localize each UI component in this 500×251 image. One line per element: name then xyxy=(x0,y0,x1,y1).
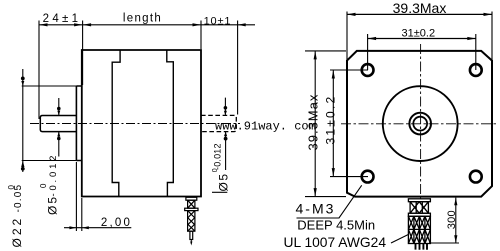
svg-text:0: 0 xyxy=(7,185,16,190)
arrow length right / 10 left xyxy=(193,23,202,26)
extension connector end xyxy=(429,242,459,244)
arrow 24 right / length left xyxy=(74,23,83,26)
dia22 lower arrow xyxy=(21,161,24,168)
boss edge extension lines xyxy=(22,86,77,161)
shaft centerline xyxy=(30,123,240,125)
svg-text:10±1: 10±1 xyxy=(204,16,232,28)
dia5 front dimension line xyxy=(58,98,60,157)
rear dia5 text underline xyxy=(212,191,227,193)
dia5 rear dots and arrows xyxy=(224,106,228,110)
mounting hole top left xyxy=(362,64,374,76)
arrows 39.3 top xyxy=(347,13,356,16)
mounting hole bottom right xyxy=(470,171,482,183)
pilot boss face xyxy=(75,86,77,161)
svg-text:39.3Max: 39.3Max xyxy=(393,0,447,16)
extension hole center lines left xyxy=(330,70,368,177)
connector pins xyxy=(416,244,428,250)
svg-text:300: 300 xyxy=(446,210,458,229)
stator step right xyxy=(167,50,174,197)
dia5 rear dimension line xyxy=(224,98,226,170)
mounting hole bottom left xyxy=(362,171,374,183)
dimension line 300 xyxy=(455,198,457,243)
arrows 31 vertical xyxy=(332,70,335,79)
svg-text:Ø5: Ø5 xyxy=(216,172,230,191)
extension line mounting face xyxy=(82,21,84,86)
flange square outline xyxy=(347,51,492,197)
svg-text:UL 1007 AWG24: UL 1007 AWG24 xyxy=(284,235,387,250)
boss height arrows outside xyxy=(69,226,76,229)
vertical centerline xyxy=(420,44,422,200)
leader 4-M3 xyxy=(297,185,362,218)
extension lines 31 top xyxy=(368,34,476,70)
front shaft xyxy=(40,116,76,132)
extension bottom edge left xyxy=(305,196,346,198)
pilot boss circle xyxy=(383,86,458,161)
dimension line 31 top xyxy=(368,38,476,40)
shaft circle xyxy=(413,117,427,131)
svg-text:Ø22: Ø22 xyxy=(10,216,24,248)
extension lines 39.3 top xyxy=(347,12,492,61)
extension line rear face xyxy=(200,21,202,50)
boss height dimension line xyxy=(64,227,131,229)
arrows 300 xyxy=(454,198,457,206)
svg-text:length: length xyxy=(123,12,162,24)
dia22 dot markers xyxy=(21,77,25,81)
boss top edge xyxy=(76,86,81,161)
rear shaft hidden xyxy=(201,115,236,131)
dia22 dimension line xyxy=(22,69,24,172)
arrowheads left view xyxy=(21,23,246,229)
mounting hole top right xyxy=(470,64,482,76)
svg-text:31±0.2: 31±0.2 xyxy=(324,95,338,145)
dia5 front dots and arrows xyxy=(57,107,61,111)
stator step left xyxy=(112,50,120,197)
arrow 10 right outside xyxy=(238,23,246,26)
svg-text:Ø5: Ø5 xyxy=(46,195,60,215)
svg-text:31±0.2: 31±0.2 xyxy=(402,27,436,39)
svg-text:4-M3: 4-M3 xyxy=(296,201,336,217)
dimension line 31 vertical xyxy=(332,70,334,177)
dimension line 39.3 vertical xyxy=(314,51,316,197)
shaft hub circle xyxy=(409,113,431,135)
arrows 31 top xyxy=(368,37,377,40)
lead wire connector front view xyxy=(408,199,430,250)
svg-text:0: 0 xyxy=(39,183,48,188)
svg-text:24±1: 24±1 xyxy=(43,13,82,25)
leader UL wire xyxy=(391,235,408,244)
extension top edge left xyxy=(305,50,346,52)
arrow 24 left xyxy=(39,23,48,26)
svg-text:0: 0 xyxy=(212,168,219,172)
dia22 upper arrow xyxy=(21,81,24,86)
svg-text:-0.012: -0.012 xyxy=(213,143,223,170)
svg-text:DEEP 4.5Min: DEEP 4.5Min xyxy=(297,217,375,232)
extension line shaft end xyxy=(38,21,40,120)
lead wire connector side view xyxy=(185,197,198,243)
extension line rear shaft end xyxy=(237,21,239,115)
boss height dim extension lines xyxy=(76,162,81,231)
arrowheads right view xyxy=(314,13,492,243)
horizontal centerline xyxy=(341,123,497,125)
arrows 39.3 vertical xyxy=(314,51,317,60)
svg-text:2,00: 2,00 xyxy=(101,217,132,229)
svg-text:www.91way. com: www.91way. com xyxy=(215,120,316,134)
dimension line 39.3 top xyxy=(347,13,492,15)
motor body side view outline xyxy=(82,50,201,197)
top dimension line xyxy=(39,24,255,26)
connector needle tip xyxy=(190,242,192,246)
svg-text:-0.012: -0.012 xyxy=(48,153,59,197)
